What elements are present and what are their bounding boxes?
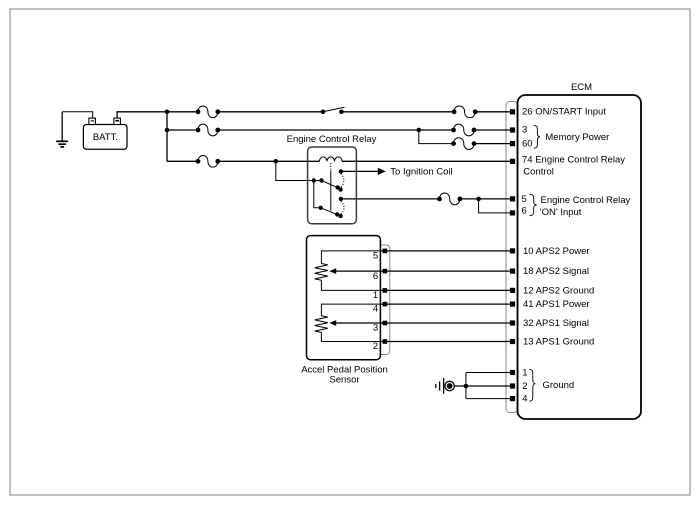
contact relay output [339, 197, 343, 201]
battery BATT. [83, 118, 127, 149]
wire feed vertical [166, 112, 168, 162]
dashed travel arc switch2 [341, 201, 344, 215]
node feed branch2 [165, 128, 170, 133]
wire branch2 to fuse [167, 129, 198, 131]
ECM pin 74 [510, 159, 515, 164]
ignition switch [321, 107, 345, 114]
APS sensor connector outline [376, 245, 390, 355]
ECM pin 32 [510, 320, 515, 325]
wire fuse F1 to ignition switch [218, 111, 323, 113]
relay blade 2 [321, 208, 338, 215]
sensor pin 2 [383, 339, 388, 344]
relay box Engine Control Relay [308, 147, 357, 224]
ECM pin 41 [510, 302, 515, 307]
wiper arrow pot1 [329, 268, 382, 274]
sensor pin 3 [383, 321, 388, 326]
relay actuator bar [330, 171, 332, 211]
svg-text:26 ON/START Input: 26 ON/START Input [522, 107, 606, 118]
node blade1 tip [336, 185, 340, 189]
wire relay output to fuse F7 [341, 198, 440, 200]
wire node down to ECM pin 6 [479, 199, 510, 213]
fuse F4 [452, 106, 478, 118]
ground (battery) [56, 112, 68, 147]
svg-text:18 APS2 Signal: 18 APS2 Signal [523, 266, 589, 277]
sensor pin 5 [383, 249, 388, 254]
ECM pin 6 [510, 210, 515, 215]
resistor pot1 APS2 [315, 264, 328, 281]
svg-text:1: 1 [373, 290, 378, 301]
wire pot2 top [321, 304, 382, 316]
svg-text:1: 1 [522, 367, 527, 378]
ECM box [518, 95, 642, 419]
sensor pin 6 [383, 269, 388, 274]
wire contact1 out of relay [341, 170, 378, 172]
wire branch3 to fuse [167, 160, 198, 162]
wire fuse F2 to node memory [218, 129, 454, 131]
fuse F1 [196, 106, 221, 118]
ECM pin 1 [510, 370, 515, 375]
wire coil to ECM pin 74 [342, 160, 510, 162]
svg-text:3: 3 [522, 125, 527, 136]
accel pedal position sensor box [307, 236, 381, 360]
wire relay common down [314, 181, 321, 208]
bracket relay on input [530, 194, 537, 215]
svg-text:12 APS2 Ground: 12 APS2 Ground [523, 285, 594, 296]
node relay common junction [312, 178, 316, 182]
svg-text:Sensor: Sensor [329, 374, 359, 385]
svg-text:Ground: Ground [543, 380, 575, 391]
svg-text:13 APS1 Ground: 13 APS1 Ground [523, 336, 594, 347]
ECM pin 13 [510, 339, 515, 344]
svg-text:2: 2 [373, 341, 378, 352]
sensor pin 4 [383, 302, 388, 307]
svg-text:6: 6 [373, 271, 378, 282]
wire APS1 power line [321, 303, 510, 305]
contact to ignition coil [339, 169, 343, 173]
wire fuse F5 to ECM pin 3 [474, 129, 510, 131]
ECM pin 10 [510, 248, 515, 253]
wire pot2 bottom [321, 332, 382, 341]
svg-text:5: 5 [522, 194, 527, 205]
node battery feed top [165, 110, 170, 115]
relay actuator dotted link [330, 163, 332, 171]
svg-text:Engine Control Relay: Engine Control Relay [541, 195, 631, 206]
fuse F3 [196, 155, 221, 167]
svg-text:10 APS2 Power: 10 APS2 Power [523, 246, 590, 257]
bracket ground [529, 369, 535, 401]
svg-text:60: 60 [522, 139, 533, 150]
node ground split [464, 384, 469, 389]
ECM pin 26 [510, 109, 515, 114]
ECM pin 3 [510, 127, 515, 132]
svg-text:BATT.: BATT. [93, 132, 118, 143]
ECM pin 4 [510, 396, 515, 401]
svg-text:41 APS1 Power: 41 APS1 Power [523, 299, 590, 310]
svg-text:'ON' Input: 'ON' Input [540, 207, 582, 218]
svg-text:Engine Control Relay: Engine Control Relay [287, 134, 377, 145]
ECM connector outline [506, 102, 518, 413]
svg-text:2: 2 [522, 381, 527, 392]
wire APS2 ground line [321, 289, 510, 291]
svg-text:74 Engine Control Relay: 74 Engine Control Relay [522, 155, 625, 166]
svg-text:32 APS1 Signal: 32 APS1 Signal [523, 318, 589, 329]
wire fuse F7 to ECM pin 5 [460, 198, 510, 200]
wire tap down to relay common [276, 161, 322, 180]
ECM pin 5 [510, 196, 515, 201]
wire APS1 signal line [336, 322, 510, 324]
relay blade 1 [322, 181, 339, 188]
wire to ECM pin 4 [466, 398, 510, 400]
wire fuse F4 to ECM pin 26 [475, 111, 510, 113]
sensor pin 1 [383, 288, 388, 293]
chassis ground symbol [436, 378, 455, 394]
svg-text:4: 4 [522, 394, 527, 405]
resistor pot2 APS1 [315, 316, 328, 333]
wire pot1 bottom [321, 280, 382, 290]
wire to ECM pin 1 [466, 372, 510, 374]
wire pot1 top [321, 251, 382, 264]
node relay blade1 pivot [319, 178, 323, 182]
wire ground split vertical [465, 373, 467, 399]
wire fuse F3 to relay coil [218, 160, 320, 162]
svg-text:To Ignition Coil: To Ignition Coil [390, 166, 452, 177]
node blade1 rest contact [338, 187, 342, 191]
wire fuse F6 to ECM pin 60 [474, 143, 510, 145]
dashed travel arc switch1 [341, 173, 344, 188]
svg-text:5: 5 [373, 251, 378, 262]
svg-text:ECM: ECM [571, 82, 592, 93]
node relay blade2 pivot [319, 206, 323, 210]
svg-text:Control: Control [523, 166, 554, 177]
node blade2 tip [335, 212, 339, 216]
wire APS1 ground line [321, 341, 510, 343]
wire APS2 signal line [336, 270, 510, 272]
svg-text:6: 6 [522, 206, 527, 217]
ECM pin 2 [510, 383, 515, 388]
relay coil [319, 157, 342, 161]
svg-text:Memory Power: Memory Power [545, 132, 609, 143]
wire APS2 power line [321, 250, 510, 252]
node memory split [417, 128, 422, 133]
ECM pin 60 [510, 141, 515, 146]
ECM pin 18 [510, 269, 515, 274]
wire switch to fuse F4 [341, 111, 454, 113]
fuse F7 [437, 193, 462, 205]
wire node memory down to pin60 branch [419, 130, 454, 144]
node relay contact tap [274, 159, 279, 164]
svg-text:3: 3 [373, 323, 378, 334]
fuse F2 [196, 124, 221, 136]
wiper arrow pot2 [329, 320, 382, 326]
arrow to ignition coil [378, 168, 386, 175]
fuse F5 [451, 124, 476, 136]
node blade2 rest contact [338, 214, 342, 218]
wire ground to battery negative terminal [62, 112, 92, 118]
fuse F6 [451, 138, 476, 150]
wire ground to node [454, 385, 510, 387]
wire battery positive to feed node [117, 112, 167, 118]
bracket memory power [534, 125, 540, 148]
ECM pin 12 [510, 288, 515, 293]
node relay on split [476, 197, 481, 202]
svg-text:4: 4 [373, 304, 378, 315]
wire branch1 to fuse [167, 111, 198, 113]
